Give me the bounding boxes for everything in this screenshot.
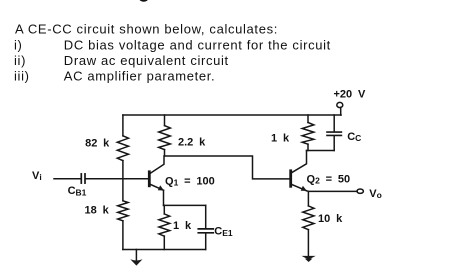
svg-text:82 k: 82 k: [85, 137, 110, 149]
wire: interstage coupling Q1 collector to Q2 base: [165, 156, 291, 179]
resistor 2.2 k: [164, 115, 166, 126]
wire: CC/1k junction to Q2 collector: [307, 150, 335, 152]
svg-text:10 k: 10 k: [318, 213, 343, 225]
wire: supply terminal stem: [340, 107, 342, 115]
wire: CB1 to Q1 base: [86, 178, 148, 180]
resistor 1 k (emitter): [163, 205, 165, 214]
wire: +20V top rail: [123, 114, 341, 116]
svg-text:DC bias voltage and current fo: DC bias voltage and current for the circ…: [64, 38, 331, 53]
ground (right): [302, 256, 316, 260]
svg-text:CC: CC: [347, 131, 361, 143]
wire: Q1 emitter node: [164, 204, 206, 206]
output terminal Vo (circle): [357, 189, 363, 193]
svg-text:A CE-CC circuit shown below, c: A CE-CC circuit shown below, calculates:: [15, 21, 278, 36]
svg-text:CB1: CB1: [68, 185, 87, 197]
capacitor CE1: [205, 205, 207, 228]
transistor Q2: [289, 171, 292, 187]
resistor 1 k (collector, right): [307, 115, 309, 123]
svg-text:Q2 = 50: Q2 = 50: [307, 173, 351, 185]
svg-text:ii): ii): [14, 53, 26, 68]
resistor 10 k: [307, 191, 309, 206]
ground (left): [135, 250, 137, 261]
svg-text:Q1 = 100: Q1 = 100: [165, 175, 215, 187]
resistor 18 k: [118, 201, 128, 221]
svg-text:+20 V: +20 V: [334, 89, 367, 101]
capacitor CB1: [80, 174, 82, 183]
svg-text:Vi: Vi: [32, 170, 42, 182]
capacitor CC: [333, 115, 335, 132]
transistor Q1: [148, 172, 151, 186]
svg-text:iii): iii): [14, 69, 30, 84]
wire: Q2 emitter to output: [306, 190, 357, 193]
wire: bottom ground rail: [123, 249, 206, 251]
wire: input to CB1: [54, 178, 81, 180]
cropped glyph remnant at top edge: [139, 0, 148, 2]
svg-text:Draw ac equivalent circuit: Draw ac equivalent circuit: [64, 53, 229, 68]
supply terminal (circle): [337, 102, 343, 107]
svg-text:CE1: CE1: [214, 226, 233, 238]
svg-text:Vo: Vo: [369, 188, 382, 200]
resistor 82 k: [122, 115, 124, 136]
svg-text:1 k: 1 k: [271, 133, 290, 145]
svg-text:1 k: 1 k: [173, 220, 192, 232]
svg-text:i): i): [14, 38, 23, 53]
svg-text:2.2 k: 2.2 k: [178, 136, 206, 148]
svg-text:18 k: 18 k: [85, 205, 110, 217]
svg-text:AC amplifier parameter.: AC amplifier parameter.: [64, 69, 216, 84]
